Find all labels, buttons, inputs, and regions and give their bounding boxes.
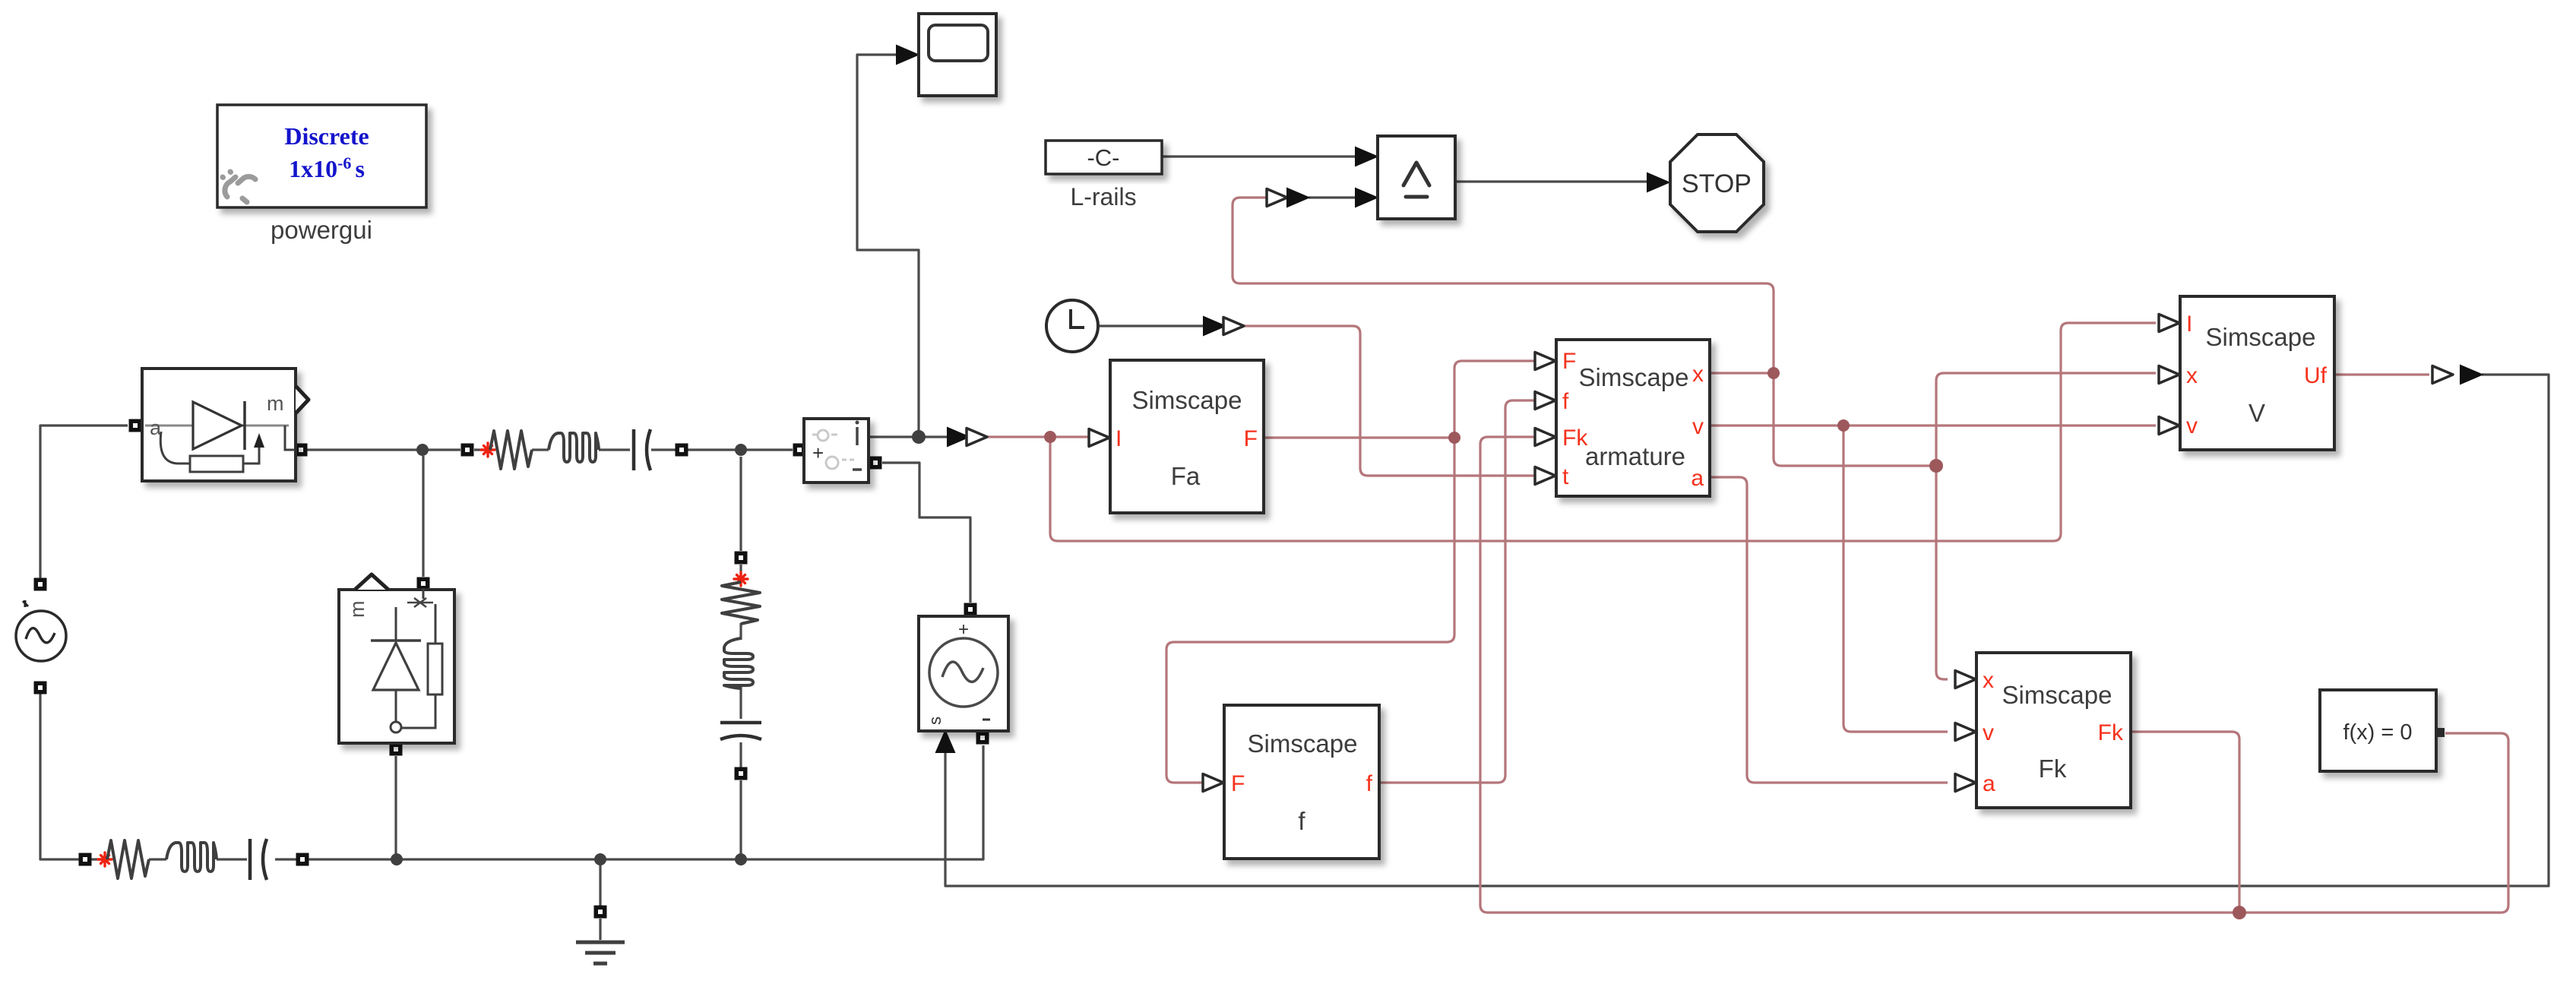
svg-text:v: v (1983, 720, 1994, 745)
svg-text:v: v (1692, 414, 1704, 439)
svg-text:a: a (1983, 771, 1995, 796)
svg-text:f(x) = 0: f(x) = 0 (2343, 720, 2412, 745)
svg-text:s: s (926, 717, 945, 725)
svg-text:L-rails: L-rails (1070, 183, 1136, 210)
svg-text:Simscape: Simscape (1132, 386, 1242, 414)
svg-text:F: F (1231, 771, 1245, 796)
svg-text:f: f (1562, 389, 1569, 414)
svg-text:V: V (2248, 399, 2265, 427)
svg-text:Fa: Fa (1171, 462, 1201, 490)
svg-text:f: f (1366, 771, 1373, 796)
svg-text:m: m (267, 392, 284, 415)
svg-text:f: f (1298, 807, 1305, 835)
svg-text:t: t (1562, 464, 1569, 489)
svg-text:Fk: Fk (1562, 426, 1588, 451)
svg-text:Simscape: Simscape (2206, 323, 2316, 351)
svg-text:powergui: powergui (271, 216, 372, 244)
svg-text:armature: armature (1585, 442, 1685, 470)
svg-text:+: + (958, 619, 969, 640)
svg-text:F: F (1244, 426, 1258, 451)
svg-text:Simscape: Simscape (2002, 681, 2112, 709)
svg-text:STOP: STOP (1682, 169, 1752, 198)
svg-text:Fk: Fk (2039, 755, 2067, 783)
svg-text:Simscape: Simscape (1248, 729, 1358, 758)
svg-text:-C-: -C- (1087, 144, 1119, 171)
svg-text:Discrete: Discrete (284, 122, 369, 150)
svg-text:Simscape: Simscape (1579, 363, 1689, 391)
svg-text:x: x (1983, 668, 1994, 693)
svg-text:+: + (812, 441, 824, 464)
svg-text:I: I (2186, 312, 2192, 337)
svg-text:a: a (1691, 466, 1704, 491)
svg-text:Uf: Uf (2304, 363, 2328, 388)
svg-text:x: x (2186, 363, 2198, 388)
svg-text:I: I (1116, 426, 1122, 451)
svg-text:v: v (2186, 413, 2198, 438)
svg-text:F: F (1562, 349, 1576, 374)
svg-text:x: x (1692, 362, 1704, 387)
svg-text:m: m (346, 601, 369, 619)
svg-text:Fk: Fk (2098, 720, 2124, 745)
